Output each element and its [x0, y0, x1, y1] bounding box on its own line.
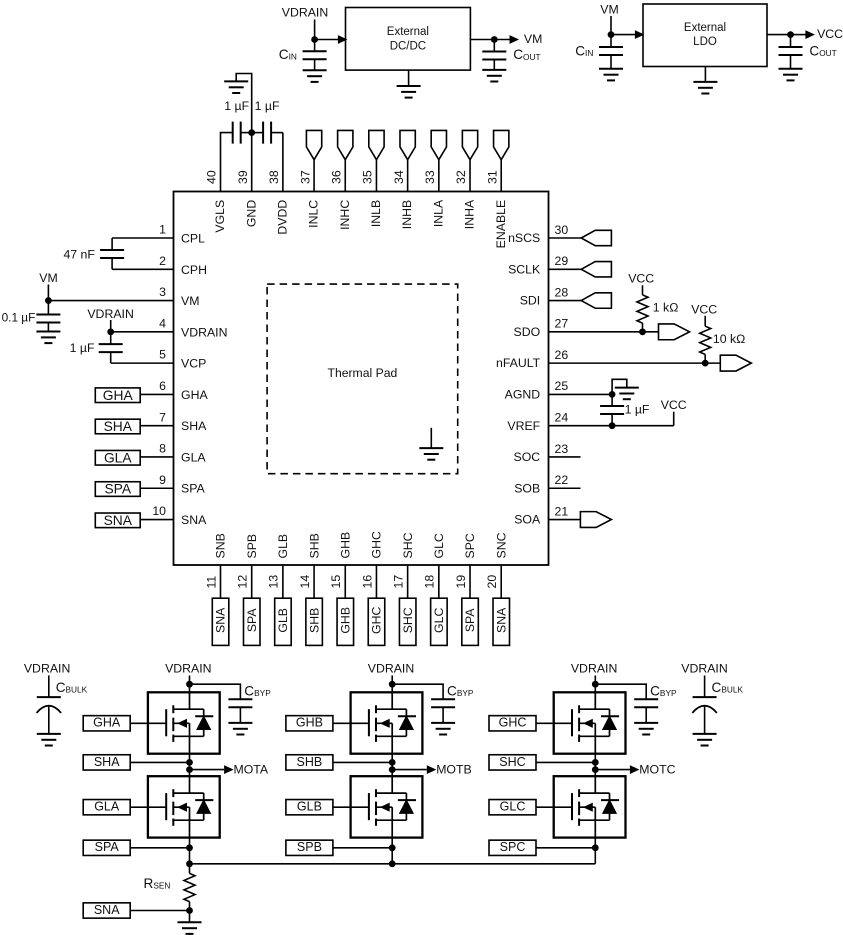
pin 34 name INHB	[400, 200, 414, 229]
pin 6 number	[159, 379, 166, 393]
svg-text:GHA: GHA	[181, 388, 208, 402]
pin 12 number	[235, 575, 249, 589]
svg-text:VCC: VCC	[691, 303, 717, 317]
svg-text:SHB: SHB	[307, 608, 321, 633]
capacitor CIN (LDO)	[599, 35, 623, 69]
svg-text:GLA: GLA	[104, 450, 132, 465]
pin 16 number	[360, 575, 374, 589]
wire LDO output	[767, 34, 791, 36]
input flag pin 33	[431, 130, 446, 159]
svg-text:DC/DC: DC/DC	[390, 40, 426, 52]
pin 3 number	[159, 285, 166, 299]
svg-text:VDRAIN: VDRAIN	[571, 662, 617, 676]
node VM junction	[45, 297, 52, 304]
node GLA terminal box	[83, 800, 130, 815]
svg-text:18: 18	[423, 575, 437, 589]
node VDRAIN junction (phase A)	[186, 681, 193, 688]
svg-text:SPB: SPB	[245, 534, 259, 559]
resistor RSEN	[184, 873, 195, 901]
pin 35 name INLB	[369, 200, 383, 227]
svg-text:MOTA: MOTA	[234, 762, 269, 776]
node SHB junction	[389, 759, 396, 766]
node SNA terminal box (pin 20)	[493, 598, 510, 645]
svg-text:SNA: SNA	[181, 513, 207, 527]
pin 4 name VDRAIN	[181, 325, 227, 339]
pin 18 number	[423, 575, 437, 589]
node SNA terminal box (pin 11)	[212, 598, 229, 645]
wire VREF to VCC	[673, 412, 675, 426]
svg-text:VGLS: VGLS	[213, 200, 227, 233]
node sense line junction (phase B)	[389, 860, 396, 867]
svg-text:VM: VM	[181, 294, 199, 308]
node SPA terminal box	[83, 840, 130, 855]
pin 14 number	[298, 575, 312, 589]
transistor high-side FET (phase A)	[148, 692, 220, 753]
wire SPA	[130, 847, 189, 849]
wire VM to junction	[610, 16, 612, 35]
svg-text:GLC: GLC	[432, 533, 446, 558]
pin 27 name SDO	[514, 325, 541, 339]
pin 16 name GHC	[370, 531, 384, 558]
pin 13 number	[267, 575, 281, 589]
svg-text:SPB: SPB	[297, 840, 322, 854]
pin 40 name VGLS	[213, 200, 227, 233]
capacitor CBYP (phase C)	[634, 699, 658, 723]
pin 17 name SHC	[401, 532, 415, 558]
pin 32 name INHA	[463, 199, 477, 229]
resistor RSEN lead top	[189, 864, 191, 874]
wire GLB	[333, 806, 351, 808]
pin 37 name INLC	[307, 200, 321, 228]
node VDRAIN junction	[107, 328, 114, 335]
ground (thermal pad)	[419, 428, 443, 460]
pin 5 name VCP	[181, 357, 206, 371]
wire to CBYP (phase B)	[392, 684, 443, 699]
wire SNA	[130, 910, 189, 912]
node SPA terminal box	[95, 482, 140, 497]
pin 22 number	[555, 473, 569, 487]
node SHA junction	[186, 759, 193, 766]
svg-text:VCP: VCP	[181, 357, 206, 371]
svg-text:GLB: GLB	[276, 534, 290, 559]
pin 39 name GND	[244, 200, 258, 227]
wire pin 35	[375, 160, 377, 192]
capacitor 1uF (VGLS-GND)	[233, 122, 241, 144]
pin 8 number	[159, 442, 166, 456]
transistor low-side FET (phase B)	[351, 776, 423, 837]
pin 30 number	[555, 223, 569, 237]
capacitor CIN (DC/DC)	[303, 40, 327, 71]
node SHA terminal box	[83, 755, 130, 770]
svg-text:VCC: VCC	[661, 398, 687, 412]
svg-text:30: 30	[555, 223, 569, 237]
net label VDRAIN (phase C)	[571, 662, 617, 676]
label RSEN	[144, 876, 171, 891]
capacitor C 47nF (CPL-CPH)	[100, 238, 124, 269]
net label MOTB	[436, 762, 472, 776]
svg-text:CPH: CPH	[181, 263, 207, 277]
node SHC terminal box (pin 17)	[399, 598, 416, 645]
pin 29 number	[555, 254, 569, 268]
label 47 nF	[63, 247, 95, 261]
pin 19 name SPC	[463, 533, 477, 558]
wire common sense line	[190, 863, 596, 865]
svg-text:nSCS: nSCS	[508, 231, 540, 245]
wire DC/DC output	[470, 39, 494, 41]
wire pin 6 GHA	[140, 393, 173, 395]
node VDRAIN junction (phase C)	[592, 681, 599, 688]
capacitor CBULK left	[37, 676, 62, 734]
svg-text:SHA: SHA	[181, 419, 207, 433]
svg-text:0.1 µF: 0.1 µF	[2, 311, 36, 325]
svg-text:SHB: SHB	[297, 755, 323, 769]
net label VCC (LDO output)	[817, 27, 843, 41]
input flag pin 36	[338, 130, 353, 159]
node SNA terminal box (bottom)	[83, 903, 130, 918]
node AGND junction	[609, 391, 616, 398]
svg-text:6: 6	[159, 379, 166, 393]
svg-text:SNB: SNB	[214, 533, 228, 558]
pin 37 number	[298, 170, 312, 184]
svg-text:INHC: INHC	[338, 200, 352, 230]
net label MOTC	[639, 762, 675, 776]
svg-text:SOA: SOA	[514, 513, 541, 527]
pin 21 number	[555, 504, 569, 518]
node VDRAIN/CIN junction	[311, 36, 318, 43]
pin 14 name SHB	[307, 533, 321, 558]
node GLB terminal box (pin 13)	[275, 598, 292, 645]
wire GLC	[536, 806, 554, 808]
svg-text:10 kΩ: 10 kΩ	[713, 332, 745, 346]
svg-text:37: 37	[298, 170, 312, 184]
pin 26 number	[555, 348, 569, 362]
wire SHB	[333, 761, 392, 763]
capacitor COUT (DC/DC)	[482, 40, 506, 70]
net label VM (LDO input)	[600, 3, 618, 17]
svg-text:SPA: SPA	[104, 482, 131, 497]
label 10 kOhm	[713, 332, 745, 346]
wire into LDO with arrow	[611, 31, 643, 38]
node SHA terminal box	[95, 419, 140, 434]
wire pin 13	[282, 565, 284, 598]
node GHC terminal box	[489, 716, 536, 731]
pin 25 name AGND	[505, 388, 541, 402]
wire pin 7 SHA	[140, 425, 173, 427]
wire rail between FETs (phase B)	[391, 754, 393, 777]
node SHB terminal box (pin 14)	[306, 598, 323, 645]
arrow to VCC	[791, 31, 814, 38]
pin 36 number	[329, 170, 343, 184]
net label VCC (SDO pullup)	[628, 271, 654, 285]
net label VDRAIN (phase A)	[165, 662, 211, 676]
pin 35 number	[361, 170, 375, 184]
svg-text:GHB: GHB	[338, 607, 352, 634]
node SPA junction	[186, 844, 193, 851]
node SNA junction	[186, 907, 193, 914]
capacitor CBULK right	[692, 676, 717, 734]
net label VM (pin 3)	[39, 271, 57, 285]
wire VDRAIN rail (phase A)	[189, 676, 191, 695]
svg-text:SNA: SNA	[94, 903, 120, 917]
svg-text:SHB: SHB	[307, 533, 321, 558]
svg-text:1 µF: 1 µF	[625, 403, 650, 417]
wire pin 34	[407, 160, 409, 192]
wire AGND to ground hook	[612, 379, 627, 394]
pin 4 number	[159, 316, 166, 330]
wire pin 39 GND	[236, 74, 251, 192]
label 1 kOhm	[653, 301, 679, 315]
pin 10 number	[152, 504, 166, 518]
output flag pin 21	[580, 512, 611, 528]
resistor 1k lead bottom	[642, 323, 644, 332]
svg-text:27: 27	[555, 317, 569, 331]
svg-text:SDO: SDO	[514, 325, 541, 339]
input flag pin 29	[581, 262, 611, 277]
pin 7 name SHA	[181, 419, 207, 433]
pin 5 number	[159, 348, 166, 362]
wire pin 4 VDRAIN	[111, 331, 174, 333]
svg-text:29: 29	[555, 254, 569, 268]
pin 2 number	[159, 254, 166, 268]
svg-text:2: 2	[159, 254, 166, 268]
label COUT (LDO)	[809, 44, 836, 59]
node SHB terminal box	[286, 755, 333, 770]
svg-text:11: 11	[204, 576, 218, 589]
svg-text:31: 31	[485, 170, 499, 184]
pin 33 number	[423, 170, 437, 184]
wire pin 27 SDO	[549, 331, 659, 333]
wire SPC	[536, 847, 595, 849]
label 1 uF (VGLS)	[224, 99, 249, 113]
wire pin 25 AGND	[549, 393, 613, 395]
transistor high-side FET (phase C)	[554, 692, 626, 753]
block External DC/DC	[346, 8, 471, 71]
wire VDRAIN label to pin 4	[110, 320, 112, 332]
wire pin 14	[313, 565, 315, 598]
wire pin 28	[549, 300, 582, 302]
svg-text:10: 10	[152, 504, 166, 518]
svg-text:GHB: GHB	[338, 532, 352, 559]
pin 34 number	[392, 170, 406, 184]
label CBYP (phase B)	[447, 683, 474, 698]
svg-text:ENABLE: ENABLE	[494, 200, 508, 249]
node nFAULT junction	[702, 360, 709, 367]
label CBULK right	[712, 680, 744, 695]
pin 3 name VM	[181, 294, 199, 308]
node VDRAIN junction (phase B)	[389, 681, 396, 688]
svg-text:GLC: GLC	[432, 608, 446, 633]
wire MOTB with arrow	[392, 766, 435, 773]
node SPB junction	[389, 844, 396, 851]
svg-text:VDRAIN: VDRAIN	[282, 6, 328, 20]
pin 1 number	[159, 223, 166, 237]
svg-text:SPA: SPA	[245, 608, 259, 632]
pin 27 number	[555, 317, 569, 331]
transistor high-side FET (phase B)	[351, 692, 423, 753]
wire pin 37	[313, 160, 315, 192]
wire pin 23 SOC	[549, 456, 581, 458]
svg-text:36: 36	[329, 170, 343, 184]
wire pin 36	[344, 160, 346, 192]
node GHA terminal box	[95, 388, 140, 403]
ground (under CIN DC/DC)	[303, 70, 327, 82]
wire SHA	[130, 761, 189, 763]
node MOTC junction	[592, 766, 599, 773]
input flag pin 35	[369, 130, 384, 159]
svg-text:VCC: VCC	[628, 271, 654, 285]
svg-text:VDRAIN: VDRAIN	[368, 662, 414, 676]
wire GHB	[333, 722, 351, 724]
wire SPC to common sense line	[594, 848, 596, 864]
input flag pin 34	[400, 130, 415, 159]
wire cap to GND pin	[241, 132, 252, 134]
ground (CBYP C)	[634, 723, 658, 735]
wire pin 18	[438, 565, 440, 598]
svg-text:9: 9	[159, 473, 166, 487]
pin 9 number	[159, 473, 166, 487]
svg-text:INLC: INLC	[307, 200, 321, 228]
svg-text:SPA: SPA	[181, 482, 205, 496]
svg-text:GHC: GHC	[370, 607, 384, 634]
net label VCC (VREF)	[661, 398, 687, 412]
wire pin 11	[220, 565, 222, 598]
wire MOTC with arrow	[595, 766, 638, 773]
pin 38 name DVDD	[275, 200, 289, 235]
svg-text:SOB: SOB	[514, 481, 540, 495]
wire pin 29	[549, 268, 582, 270]
wire pin 40 VGLS	[221, 133, 233, 192]
resistor R 10k	[700, 326, 711, 354]
svg-text:32: 32	[454, 170, 468, 184]
svg-text:SOC: SOC	[514, 450, 541, 464]
node MOTA junction	[186, 766, 193, 773]
output flag pin 27	[659, 324, 690, 340]
wire to CBYP (phase C)	[595, 684, 646, 699]
label CIN (LDO)	[575, 43, 593, 58]
svg-text:LDO: LDO	[693, 36, 717, 48]
ground (under COUT LDO)	[779, 69, 803, 81]
svg-text:1 µF: 1 µF	[224, 99, 249, 113]
pin 24 name VREF	[507, 419, 540, 433]
svg-text:INLA: INLA	[431, 199, 445, 227]
svg-text:CPL: CPL	[181, 232, 205, 246]
wire pin 8 GLA	[140, 456, 173, 458]
svg-text:1: 1	[159, 223, 166, 237]
svg-text:GHC: GHC	[370, 531, 384, 558]
wire pin 12	[251, 565, 253, 598]
wire pin 5 VCP	[111, 362, 174, 364]
capacitor CBYP (phase A)	[228, 699, 252, 723]
net label VCC (nFAULT pullup)	[691, 303, 717, 317]
capacitor 1uF (GND-DVDD)	[252, 122, 283, 144]
svg-text:4: 4	[159, 316, 166, 330]
node SPC terminal box	[489, 840, 536, 855]
wire pin 21 SOA	[549, 519, 581, 521]
label 0.1 uF	[2, 311, 36, 325]
wire pin 16	[375, 565, 377, 598]
pin 9 name SPA	[181, 482, 205, 496]
ground (under COUT DC/DC)	[482, 70, 506, 82]
net label MOTA	[234, 762, 269, 776]
svg-text:GHA: GHA	[103, 388, 134, 403]
block External LDO	[643, 4, 767, 67]
pin 36 name INHC	[338, 200, 352, 230]
label CBYP (phase C)	[650, 683, 677, 698]
svg-text:SCLK: SCLK	[508, 262, 541, 276]
label Thermal Pad	[328, 366, 398, 380]
svg-text:17: 17	[391, 575, 405, 589]
svg-text:8: 8	[159, 442, 166, 456]
node GLA terminal box	[95, 450, 140, 465]
resistor R 1k	[637, 295, 648, 323]
svg-text:SNA: SNA	[214, 607, 228, 633]
wire pin 20	[500, 565, 502, 598]
pin 1 name CPL	[181, 232, 205, 246]
svg-text:34: 34	[392, 170, 406, 184]
pin 15 number	[329, 575, 343, 589]
input flag pin 37	[306, 130, 321, 159]
svg-text:25: 25	[555, 379, 569, 393]
svg-text:SNC: SNC	[494, 532, 508, 558]
pin 29 name SCLK	[508, 262, 541, 276]
svg-text:GHB: GHB	[296, 716, 323, 730]
svg-text:1 µF: 1 µF	[255, 99, 280, 113]
ground (under CIN LDO)	[599, 69, 623, 81]
wire VM rail to pin 3	[47, 285, 49, 301]
svg-text:28: 28	[555, 285, 569, 299]
svg-text:GLC: GLC	[500, 800, 526, 814]
svg-text:INHA: INHA	[463, 199, 477, 229]
svg-text:VCC: VCC	[817, 27, 843, 41]
pin 12 name SPB	[245, 534, 259, 559]
pin 23 number	[555, 442, 569, 456]
svg-text:15: 15	[329, 575, 343, 589]
label CBYP (phase A)	[244, 683, 271, 698]
label 1 uF (DVDD)	[255, 99, 280, 113]
pin 18 name GLC	[432, 533, 446, 558]
resistor RSEN lead bottom	[189, 902, 191, 911]
pin 10 name SNA	[181, 513, 207, 527]
svg-text:VDRAIN: VDRAIN	[181, 325, 227, 339]
wire pin 24 VREF	[549, 425, 674, 427]
svg-text:AGND: AGND	[505, 388, 541, 402]
ground (AGND)	[615, 388, 639, 400]
svg-text:INLB: INLB	[369, 200, 383, 227]
svg-text:40: 40	[205, 170, 219, 184]
svg-text:GLA: GLA	[181, 450, 206, 464]
node SPA terminal box (pin 12)	[243, 598, 259, 645]
capacitor COUT (LDO)	[779, 35, 803, 69]
svg-text:33: 33	[423, 170, 437, 184]
wire rail between FETs (phase A)	[189, 754, 191, 777]
svg-text:24: 24	[555, 410, 569, 424]
svg-text:22: 22	[555, 473, 569, 487]
input flag pin 32	[462, 130, 477, 159]
svg-text:VM: VM	[600, 3, 618, 17]
wire pin 15	[344, 565, 346, 598]
svg-text:GHC: GHC	[499, 716, 527, 730]
svg-text:SPC: SPC	[463, 533, 477, 558]
ground (CBULK left)	[37, 734, 61, 746]
svg-text:VREF: VREF	[507, 419, 540, 433]
net label VM (DC/DC output)	[524, 32, 542, 46]
wire rail below low FET (phase C)	[594, 838, 596, 848]
pin 7 number	[159, 410, 166, 424]
node SPB terminal box	[286, 840, 333, 855]
svg-text:19: 19	[454, 575, 468, 589]
wire pin 30	[549, 237, 582, 239]
resistor 10k lead top	[704, 316, 706, 326]
